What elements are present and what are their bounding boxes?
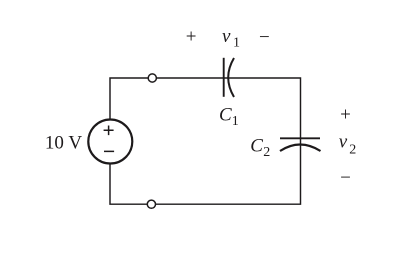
svg-text:2: 2 — [349, 142, 356, 157]
svg-text:v: v — [222, 26, 231, 47]
svg-text:1: 1 — [232, 114, 239, 129]
svg-text:v: v — [339, 131, 348, 152]
svg-text:−: − — [259, 27, 270, 48]
svg-text:+: + — [186, 27, 197, 48]
svg-text:10 V: 10 V — [45, 133, 82, 154]
svg-text:2: 2 — [263, 145, 270, 160]
svg-text:−: − — [340, 168, 351, 189]
svg-text:C: C — [219, 105, 232, 126]
svg-text:1: 1 — [233, 36, 240, 51]
svg-text:+: + — [340, 105, 351, 126]
svg-text:C: C — [250, 136, 263, 157]
